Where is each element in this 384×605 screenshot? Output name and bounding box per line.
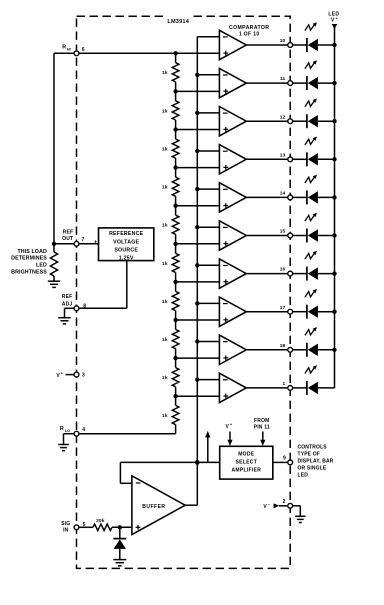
- svg-text:REF: REF: [62, 294, 73, 300]
- svg-text:9: 9: [283, 456, 286, 462]
- svg-text:LED: LED: [36, 263, 47, 269]
- svg-text:OR SINGLE: OR SINGLE: [298, 466, 327, 472]
- svg-text:1k: 1k: [162, 70, 168, 76]
- svg-text:1k: 1k: [162, 185, 168, 191]
- svg-text:THIS LOAD: THIS LOAD: [17, 249, 47, 255]
- svg-text:SELECT: SELECT: [236, 460, 258, 466]
- svg-text:1k: 1k: [162, 337, 168, 343]
- svg-text:1 OF 10: 1 OF 10: [239, 32, 260, 38]
- svg-text:17: 17: [280, 305, 286, 311]
- svg-text:SOURCE: SOURCE: [114, 247, 138, 253]
- svg-text:REF: REF: [63, 230, 74, 236]
- svg-text:1k: 1k: [162, 108, 168, 114]
- svg-text:1k: 1k: [162, 375, 168, 381]
- svg-text:11: 11: [280, 76, 286, 82]
- svg-text:HI: HI: [67, 47, 71, 51]
- svg-text:1k: 1k: [162, 261, 168, 267]
- svg-text:DISPLAY, BAR: DISPLAY, BAR: [298, 459, 334, 465]
- svg-text:TYPE OF: TYPE OF: [298, 452, 320, 458]
- svg-text:10: 10: [280, 38, 286, 44]
- svg-text:IN: IN: [63, 527, 69, 533]
- svg-text:LO: LO: [65, 429, 70, 433]
- svg-text:+: +: [61, 372, 63, 376]
- svg-text:18: 18: [280, 343, 286, 349]
- svg-text:CONTROLS: CONTROLS: [298, 445, 328, 451]
- svg-text:MODE: MODE: [238, 452, 255, 458]
- svg-text:BRIGHTNESS: BRIGHTNESS: [11, 270, 47, 276]
- svg-text:LED: LED: [328, 11, 339, 17]
- svg-text:8: 8: [83, 304, 86, 310]
- svg-text:13: 13: [280, 152, 286, 158]
- svg-text:COMPARATOR: COMPARATOR: [229, 25, 269, 31]
- svg-text:1: 1: [283, 381, 286, 387]
- svg-text:1k: 1k: [162, 299, 168, 305]
- svg-text:7: 7: [82, 237, 85, 243]
- svg-text:VOLTAGE: VOLTAGE: [113, 239, 139, 245]
- svg-text:SIG: SIG: [61, 521, 70, 527]
- svg-text:ADJ: ADJ: [62, 302, 73, 308]
- svg-text:15: 15: [280, 229, 286, 235]
- svg-text:OUT: OUT: [62, 236, 73, 242]
- svg-text:+: +: [230, 423, 232, 427]
- svg-text:+: +: [94, 239, 97, 245]
- svg-text:1k: 1k: [162, 223, 168, 229]
- svg-text:1.25V: 1.25V: [119, 255, 134, 261]
- svg-text:PIN 11: PIN 11: [254, 424, 270, 430]
- svg-text:20k: 20k: [96, 518, 105, 524]
- svg-text:3: 3: [82, 373, 85, 379]
- svg-text:14: 14: [280, 191, 286, 197]
- svg-text:AMPLIFIER: AMPLIFIER: [231, 468, 261, 474]
- svg-text:4: 4: [82, 427, 85, 433]
- svg-text:BUFFER: BUFFER: [142, 504, 165, 510]
- svg-text:LED: LED: [298, 473, 309, 479]
- svg-text:1k: 1k: [162, 147, 168, 153]
- svg-text:+: +: [335, 17, 337, 21]
- svg-text:16: 16: [280, 267, 286, 273]
- svg-text:FROM: FROM: [254, 418, 270, 424]
- svg-text:12: 12: [280, 114, 286, 120]
- svg-text:DETERMINES: DETERMINES: [11, 256, 47, 262]
- svg-text:REFERENCE: REFERENCE: [109, 231, 144, 237]
- svg-text:R: R: [62, 45, 66, 51]
- svg-text:6: 6: [82, 47, 85, 53]
- svg-text:R: R: [60, 426, 64, 432]
- svg-text:2: 2: [283, 499, 286, 505]
- svg-text:LM3914: LM3914: [167, 19, 189, 25]
- svg-text:−: −: [268, 502, 270, 506]
- svg-text:1k: 1k: [162, 413, 168, 419]
